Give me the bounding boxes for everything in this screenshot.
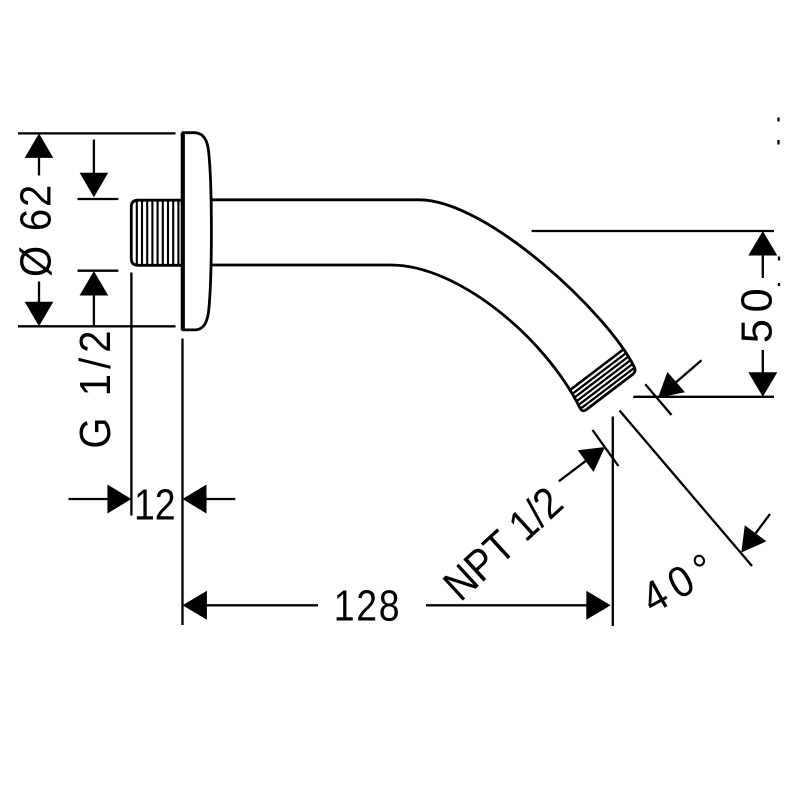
outlet arrow tail xyxy=(676,360,701,382)
svg-text:128: 128 xyxy=(334,581,402,630)
dimension texts xyxy=(11,183,782,630)
G1/2 up arrow xyxy=(80,271,109,296)
dim 128 line xyxy=(205,604,318,606)
ref line outlet level xyxy=(633,396,774,398)
O62 down arrow xyxy=(25,302,54,327)
G1/2 down arrow xyxy=(80,173,109,198)
dim 12 tails xyxy=(69,498,109,500)
dim O62 line stubs xyxy=(38,155,40,176)
128 arrow pointing left xyxy=(183,591,207,620)
40deg arrow pointing down-left xyxy=(741,525,766,552)
wall dashes xyxy=(777,118,779,122)
NPT tick at tip xyxy=(593,430,619,466)
ref line pipe axis level xyxy=(532,230,774,232)
dim 12 left ext line xyxy=(130,273,132,516)
dim 128 right ext line xyxy=(612,417,614,627)
40deg arrow tail xyxy=(756,514,770,533)
12 arrow pointing right xyxy=(107,485,131,514)
128 arrow pointing right xyxy=(586,591,610,620)
dim G1/2 ext stubs xyxy=(78,198,119,200)
dim O62 ext bottom xyxy=(18,325,176,327)
NPT leader tail xyxy=(559,461,586,481)
O62 up arrow xyxy=(25,133,54,158)
shower arm tube body xyxy=(205,200,635,411)
50 down arrow xyxy=(748,372,777,397)
arrowheads xyxy=(25,133,778,619)
diagonal axis extension (40 deg) xyxy=(620,411,753,567)
dim 50 tails xyxy=(762,253,764,278)
50 up arrow xyxy=(748,231,777,256)
tube outline xyxy=(205,200,635,411)
12 arrow pointing left xyxy=(183,485,207,514)
svg-text:G 1/2: G 1/2 xyxy=(70,325,119,448)
dim O62 ext top xyxy=(18,132,176,134)
svg-text:Ø 62: Ø 62 xyxy=(11,183,60,277)
escutcheon flange xyxy=(183,133,212,330)
NPT thread hatching on tip xyxy=(559,346,640,415)
G1/2 wall thread xyxy=(131,200,181,265)
outlet-level arrow pointing down-left xyxy=(658,372,685,398)
dim G1/2 tails xyxy=(93,140,95,176)
NPT arrow pointing up-right xyxy=(578,447,605,472)
svg-text:50: 50 xyxy=(734,282,782,343)
svg-text:12: 12 xyxy=(134,480,176,529)
dim 12/128 shared right ext line xyxy=(181,339,183,626)
tick at outlet level xyxy=(645,384,671,415)
